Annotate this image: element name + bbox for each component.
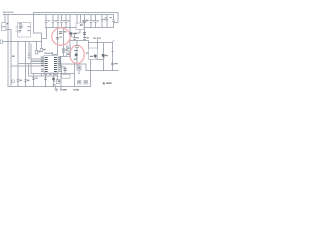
wire U1 left pin stubs xyxy=(16,27,18,31)
wire left vertical x11 xyxy=(10,30,12,87)
crystal Y1 box xyxy=(76,23,84,30)
wire y33 stub xyxy=(75,32,81,34)
wire x61 drop to ground xyxy=(60,74,62,87)
wire long pin line y66 xyxy=(11,65,44,67)
wire x90.5 to ground rail xyxy=(90,71,92,87)
resistor R on x41.5 xyxy=(40,49,43,52)
wire x60.5 drop xyxy=(60,57,62,68)
wire resistor x79 top xyxy=(78,64,80,66)
logo triangle and text xyxy=(102,82,111,84)
diode D2 xyxy=(102,54,108,58)
wire x61.5 ic right vertical low xyxy=(61,66,63,74)
wire circle2 feed x77 xyxy=(76,41,78,46)
label left of x61 xyxy=(58,80,60,82)
wire IC right stubs xyxy=(58,58,61,64)
text specks under IC xyxy=(44,73,57,76)
ground symbol bottom xyxy=(55,87,58,92)
transistor Q1 xyxy=(70,32,77,37)
annotation circle 1 xyxy=(52,28,70,45)
junction dots xyxy=(4,14,113,87)
capacitor on x33.5 xyxy=(32,78,35,80)
wire long horizontal y41.5 xyxy=(3,41,42,43)
wire bus vertical x31 xyxy=(30,44,32,74)
text note top-left xyxy=(3,12,7,13)
output cap on x112 xyxy=(111,63,114,65)
wire x86 drop xyxy=(85,64,87,71)
decoupling capacitor bank under top rail xyxy=(45,15,108,28)
wire right ground rail y70.5 xyxy=(86,70,118,72)
wire box right x97.5 xyxy=(97,43,99,49)
bypass cap x29 with ground xyxy=(28,54,31,56)
label in circle 2 xyxy=(74,50,77,51)
wire vertical x18 xyxy=(17,42,19,87)
label above ground rail xyxy=(53,84,56,85)
connector J1 DC jack xyxy=(2,23,7,31)
capacitor crystal load xyxy=(83,20,85,22)
wire long pin line y63.6 xyxy=(18,63,44,65)
wire x103.5 vertical xyxy=(103,43,105,71)
wire bus line 3 xyxy=(31,61,44,63)
transformer box right xyxy=(89,48,98,60)
wire circle2 low x77 xyxy=(76,58,78,66)
caps bottom-left xyxy=(17,80,19,82)
capacitor on x74.5 xyxy=(73,38,76,40)
wire crystal top feed x77 xyxy=(76,15,78,24)
wire right rail y42.5 xyxy=(89,42,113,44)
wire bus line 2 xyxy=(31,59,44,61)
resistor R below circle1 xyxy=(62,49,65,52)
cap under IC x45.5 xyxy=(44,78,47,80)
wire x90.5 vertical xyxy=(90,60,92,71)
wire jog to cap xyxy=(61,67,66,74)
wire circle1 drop x63.5 xyxy=(63,28,65,57)
wire mid horizontal y73.5 xyxy=(31,73,75,75)
net label 0Vdc right xyxy=(73,89,74,91)
wire y59.5 link xyxy=(98,59,104,61)
wire jog to IC top xyxy=(53,55,58,56)
connector header boxes xyxy=(67,46,71,57)
wire vertical x46.5 cap rail end xyxy=(46,28,48,39)
diode under IC x53.5 xyxy=(52,78,55,82)
wire x88.5 drop to box xyxy=(88,41,90,49)
capacitor C bank plates xyxy=(45,21,47,23)
capacitor on x84.5 xyxy=(83,38,86,40)
wire jack drop x5 xyxy=(4,15,6,23)
wire horizontal y33 xyxy=(34,32,42,34)
wire vertical x33.5 from rail A xyxy=(33,13,35,34)
connector pin left edge xyxy=(0,40,2,43)
wire ground rail y86.5 xyxy=(8,86,91,88)
box under IC x57.5 xyxy=(56,80,59,84)
text inside circle 1 xyxy=(59,31,66,37)
wire vertical x74.5 xyxy=(74,33,76,41)
wire bus line 1 xyxy=(31,58,44,60)
wire circle2 mid x77 xyxy=(76,49,78,54)
wire x28.5 drop xyxy=(28,64,30,76)
label left of x112 xyxy=(106,55,108,56)
wire y40.5 row xyxy=(70,40,89,42)
wire transistor branch x70 xyxy=(69,15,71,47)
wire circle1 drop x57.5 xyxy=(57,28,59,55)
diode D1 xyxy=(90,55,97,59)
electrolytic cap in circle 2 xyxy=(75,46,79,48)
wire crystal drop x80 xyxy=(79,30,81,34)
capacitor in circle 1 xyxy=(56,37,59,39)
wire resistor x79 bottom xyxy=(78,70,80,74)
wire x38.5 short xyxy=(41,74,43,76)
wire x112.5 vertical xyxy=(112,43,114,71)
label right of circle2 xyxy=(86,53,89,54)
wire top power rail xyxy=(3,14,114,16)
wire IC bottom x53.5 xyxy=(53,73,55,87)
capacitor right end plates xyxy=(112,20,115,22)
wire y75.5 under IC xyxy=(29,75,59,77)
net label 0Vdc left xyxy=(60,89,61,91)
wire IC bottom x45.5 xyxy=(45,73,47,87)
wire vertical x36.5 xyxy=(36,42,38,51)
resistor on x36.5 xyxy=(35,51,38,54)
wire x74.5 drop to ground xyxy=(74,64,76,87)
resistor mid bottom xyxy=(77,66,81,70)
wire jog y38.5 xyxy=(42,38,47,40)
wire IC bottom x57.5 xyxy=(57,73,59,80)
regulator U1 box xyxy=(18,23,31,38)
wire x60.5 ic right vertical xyxy=(60,58,62,65)
wire vertical x25.5 xyxy=(25,42,27,87)
wire stub up x97.5 xyxy=(97,40,99,43)
tick on x112 upper xyxy=(112,51,114,53)
box under y73.5 xyxy=(62,75,71,79)
curl at right rail end xyxy=(113,41,115,43)
wire gnd stub x61 xyxy=(60,87,62,90)
wire mid horizontal y64 xyxy=(59,63,87,65)
wire right end vertical joining rails xyxy=(113,15,115,28)
wire bypass cap drop x29 xyxy=(28,42,30,54)
wire rail A right drop xyxy=(117,13,119,23)
capacitor near crystal xyxy=(83,33,86,35)
wire vertical x41.5 xyxy=(41,33,43,49)
wire second rail xyxy=(46,27,114,29)
wire x33.5 drop to ground xyxy=(33,74,35,87)
transistor Q2 in circle 2 xyxy=(75,54,78,57)
annotation circle 2 xyxy=(70,45,84,63)
wire x84.5 drop xyxy=(84,15,86,41)
capacitor value labels xyxy=(48,20,50,21)
wire y56.5 link xyxy=(61,56,67,58)
wire rail A right jog xyxy=(115,22,119,24)
text above right rail xyxy=(93,38,96,39)
cap on y73.5 xyxy=(64,69,67,71)
wire left vertical from rail x8 xyxy=(7,15,9,87)
wire jack pin2 jog xyxy=(6,29,11,31)
IC U2 xyxy=(41,53,62,74)
wire upper rail A xyxy=(34,12,119,14)
label right of x11 mid xyxy=(12,56,15,57)
electrolytic caps right bottom xyxy=(78,81,88,85)
